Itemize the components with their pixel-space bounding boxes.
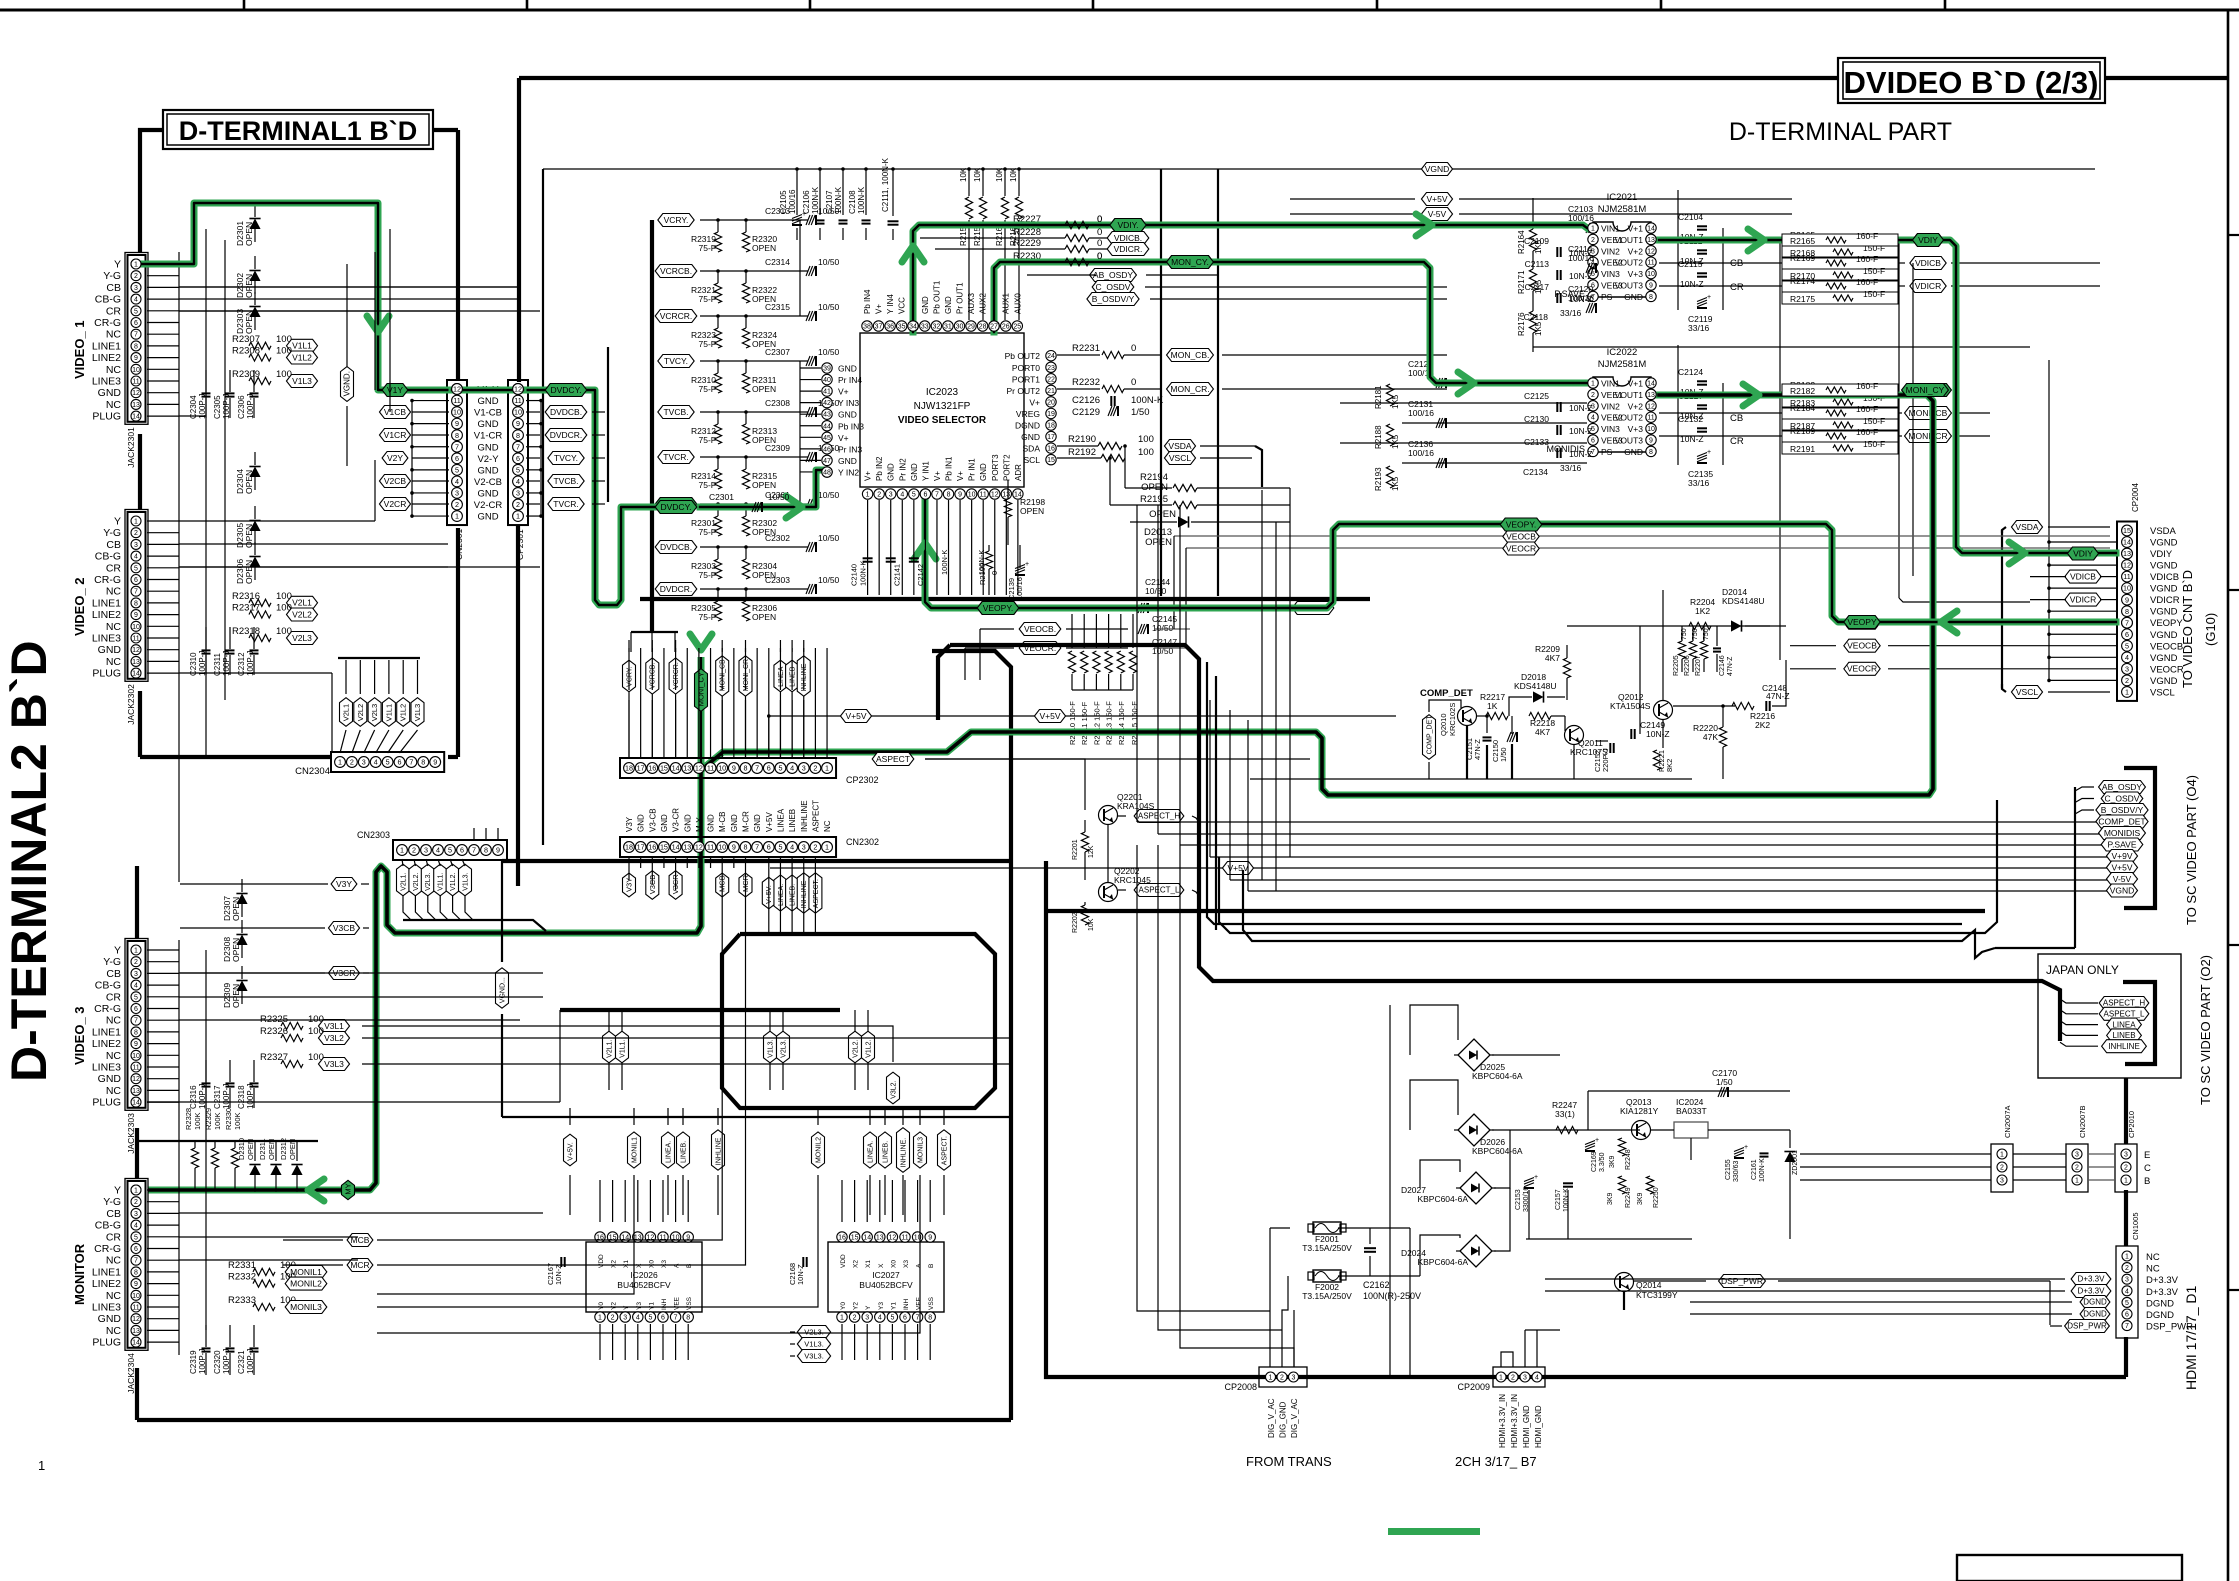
svg-text:DVDCB.: DVDCB. [550, 407, 582, 417]
net tag VDICB [1910, 257, 1946, 270]
svg-text:C2162: C2162 [1363, 1280, 1390, 1290]
svg-text:1: 1 [516, 512, 520, 521]
svg-text:5: 5 [912, 492, 916, 499]
svg-text:C2129: C2129 [1072, 407, 1100, 418]
pin 27 IC2023 [989, 321, 999, 331]
svg-text:CN2304: CN2304 [295, 766, 330, 777]
svg-text:3: 3 [1523, 1375, 1527, 1382]
net tag C_OSDV (O4) [2101, 792, 2143, 805]
resistor R2169 160-F [1782, 257, 1898, 269]
svg-text:10/50: 10/50 [818, 302, 840, 312]
svg-text:PS: PS [1601, 292, 1613, 302]
svg-text:4: 4 [516, 477, 520, 486]
svg-text:6: 6 [398, 758, 402, 767]
wire x=1046 column stubs [1011, 905, 1046, 907]
svg-text:2CH 3/17_ B7: 2CH 3/17_ B7 [1455, 1454, 1537, 1469]
svg-text:MONI_CR: MONI_CR [743, 659, 750, 691]
net tag COMP_DET (O4) [2096, 815, 2148, 828]
wire IC2021 outputs to banks [1659, 262, 1782, 264]
svg-text:47N-Z: 47N-Z [1473, 739, 1482, 760]
svg-text:10N-Z: 10N-Z [1646, 729, 1670, 739]
net tag VSDA [1164, 440, 1195, 453]
svg-text:C2318: C2318 [237, 1085, 246, 1109]
svg-text:1K5: 1K5 [1391, 394, 1400, 409]
resistor R2321 75-F [714, 283, 721, 303]
svg-text:LINEB: LINEB [788, 809, 797, 832]
svg-text:V3-CR: V3-CR [672, 808, 681, 832]
svg-text:C2310: C2310 [189, 652, 198, 676]
net tag VGND. vertical mid [496, 968, 509, 1008]
net tag VGND (O4) [2106, 884, 2137, 897]
svg-text:GND: GND [477, 488, 498, 499]
wire vertical x=652 heavy [650, 220, 654, 632]
svg-text:PORT1: PORT1 [1012, 374, 1040, 384]
svg-text:33/16: 33/16 [1688, 323, 1710, 333]
svg-text:Y-G: Y-G [103, 956, 121, 968]
net tag MONIL1 [628, 1132, 641, 1168]
pin 7 CP2004 restamp [2122, 617, 2133, 628]
svg-text:VDICR: VDICR [1915, 281, 1941, 291]
pin 1 VIDEO_1 restamp [131, 259, 141, 269]
wire column x=1137 [1136, 505, 1138, 822]
transistor Q2014 KTC3199Y [1615, 1273, 1634, 1292]
svg-text:13: 13 [683, 764, 691, 773]
svg-text:2: 2 [516, 500, 520, 509]
svg-text:8: 8 [134, 600, 138, 607]
svg-text:C2302: C2302 [765, 533, 790, 543]
svg-text:VGND: VGND [2150, 538, 2178, 549]
svg-text:3: 3 [1292, 1375, 1296, 1382]
svg-text:13: 13 [876, 1235, 884, 1242]
net tag V3Y [623, 873, 636, 897]
svg-text:CP2010: CP2010 [2127, 1111, 2136, 1138]
svg-text:12: 12 [695, 843, 703, 852]
svg-text:V1L1: V1L1 [384, 704, 393, 722]
pin 14 IC2026 [620, 1232, 630, 1242]
CP2301 stem [516, 526, 520, 886]
pin 4 IC2027 [875, 1312, 885, 1322]
svg-text:0: 0 [990, 571, 999, 575]
svg-text:VDICR: VDICR [2070, 594, 2096, 604]
net tag VSCL [2011, 686, 2042, 699]
svg-text:14: 14 [1647, 226, 1655, 233]
net tag VEOCB (upper) [1174, 535, 2110, 537]
svg-text:C2115: C2115 [1678, 259, 1703, 269]
resistor R2175 150-F [1782, 292, 1898, 304]
wire fan [376, 730, 389, 753]
svg-text:GND: GND [838, 410, 857, 420]
wire HDMI rows extend [1545, 1278, 1830, 1280]
svg-text:C2157: C2157 [1555, 1189, 1562, 1210]
svg-text:MONIL3: MONIL3 [917, 1137, 924, 1163]
wire O4 row P.SAVE [1180, 844, 2108, 846]
svg-text:47K: 47K [1703, 732, 1718, 742]
svg-text:C2134: C2134 [1523, 467, 1548, 477]
svg-text:11: 11 [1647, 260, 1654, 267]
svg-text:GND: GND [944, 296, 953, 314]
net tag VCRCB. [655, 265, 697, 278]
svg-text:10: 10 [514, 408, 522, 417]
wire tag stub [814, 856, 816, 872]
svg-text:2: 2 [134, 273, 138, 280]
resistor R2302 OPEN [742, 516, 749, 536]
pin 2 IC2022 [1588, 389, 1598, 399]
net tag AB_OSDY (O4) [2099, 781, 2146, 794]
svg-text:Y: Y [114, 1185, 121, 1197]
svg-text:GND: GND [1624, 447, 1643, 457]
svg-text:X3: X3 [903, 1260, 910, 1268]
svg-text:3: 3 [2125, 1277, 2129, 1284]
connector CN2007B [2066, 1144, 2088, 1192]
svg-text:13: 13 [132, 1088, 140, 1095]
svg-text:HDMI+3.3V_IN: HDMI+3.3V_IN [1510, 1394, 1519, 1448]
svg-text:10: 10 [132, 1053, 140, 1060]
svg-text:PORT3: PORT3 [991, 454, 1000, 481]
svg-text:OPEN: OPEN [231, 984, 241, 1008]
capacitor C2145 10/50 [1138, 603, 1142, 613]
pin 41 IC2023 [822, 386, 832, 396]
svg-text:7: 7 [674, 1315, 678, 1322]
pin 2 IC2026 [607, 1312, 617, 1322]
pin 33 IC2023 [920, 321, 930, 331]
net tag V3L1 [318, 1020, 349, 1033]
svg-text:37: 37 [875, 324, 883, 331]
resistor R2182 160-F [1782, 384, 1898, 396]
svg-text:Y3: Y3 [636, 1302, 643, 1310]
transistor Q2011 KRC107S [1565, 726, 1584, 745]
wire 1K5 column IC2021 [1532, 198, 1534, 229]
svg-text:12: 12 [991, 492, 999, 499]
svg-text:12: 12 [1647, 248, 1655, 255]
svg-text:LINEB.: LINEB. [882, 1141, 889, 1163]
net tag V+5V row a [840, 710, 871, 723]
diode D2307 (OPEN) [236, 894, 247, 905]
D-TERMINAL2 top edge [502, 859, 1011, 863]
svg-text:TVCR.: TVCR. [553, 499, 579, 509]
svg-text:VSCL: VSCL [2150, 687, 2175, 698]
resistors R2249/R2250 3K9 [1618, 1176, 1625, 1194]
svg-text:1: 1 [455, 512, 459, 521]
svg-text:R2248: R2248 [1625, 1149, 1632, 1170]
pin 1 IC2022 restamp [1588, 378, 1598, 388]
svg-text:11: 11 [901, 1235, 908, 1242]
loop A heavy [950, 645, 2060, 1041]
net tag P.SAVE (O4) [2101, 838, 2143, 851]
svg-text:1: 1 [1269, 1375, 1273, 1382]
svg-text:P.SAVE: P.SAVE [2108, 839, 2137, 849]
svg-text:LINEB: LINEB [789, 666, 796, 687]
net tag MONIDIS (O4) [2099, 827, 2146, 840]
wire TVC bus x=608 [607, 347, 609, 502]
svg-text:LINE2: LINE2 [92, 352, 121, 364]
svg-text:NC: NC [106, 1085, 122, 1097]
net tag LINEB. [677, 1132, 690, 1168]
svg-text:VGND: VGND [2150, 584, 2178, 595]
svg-text:3: 3 [2000, 1178, 2004, 1185]
svg-text:19: 19 [1047, 411, 1055, 418]
svg-text:13: 13 [132, 659, 140, 666]
diodes D2310-D2312 OPEN [249, 1165, 260, 1176]
svg-text:DVDCY.: DVDCY. [550, 385, 581, 395]
wire VIDEO_2 grid rows [179, 543, 519, 545]
resistor R2312 75-F [714, 424, 721, 444]
title box DVIDEO B'D (2/3) [1838, 58, 2105, 103]
transistor Q2013 KIA1281Y [1632, 1121, 1651, 1140]
svg-text:C2105: C2105 [779, 190, 788, 214]
resistor R2313 OPEN [742, 424, 749, 444]
net tag INHLINE. [897, 1128, 910, 1173]
svg-text:100N-K: 100N-K [811, 186, 820, 214]
net tag VDIY [1912, 234, 1943, 247]
svg-text:V1L1: V1L1 [292, 341, 312, 351]
wire cap column verticals [1677, 190, 1679, 310]
wire vertical bus x=206 lower [205, 950, 207, 1330]
capacitor C2317 100P-J [226, 1082, 235, 1084]
svg-text:C2117: C2117 [1525, 282, 1550, 292]
svg-text:OPEN: OPEN [231, 938, 241, 962]
svg-text:CB: CB [106, 282, 121, 294]
svg-text:38: 38 [863, 324, 871, 331]
capacitor C2142 100N-K [909, 557, 919, 559]
net tag ASPECT. [809, 873, 822, 913]
capacitor C2305 100P-J [226, 392, 235, 394]
svg-text:R2249: R2249 [1625, 1187, 1632, 1208]
svg-text:100/16: 100/16 [1408, 408, 1434, 418]
net tag V3CR [669, 871, 682, 900]
svg-text:R2184: R2184 [1790, 403, 1815, 413]
svg-text:150-F: 150-F [1863, 266, 1885, 276]
svg-text:R2229: R2229 [1013, 238, 1041, 249]
svg-text:GND: GND [979, 463, 988, 481]
resistor R2201 12K [1081, 832, 1088, 852]
capacitor C2132 10N-Z [1697, 427, 1707, 429]
svg-text:GND: GND [910, 463, 919, 481]
svg-text:ASPECT.: ASPECT. [941, 1136, 948, 1165]
resistor R2207 750 [1700, 641, 1707, 659]
net tag V3L3 [318, 1058, 349, 1071]
net tag MONI_CY restamp bank [1902, 384, 1949, 397]
svg-text:4K7: 4K7 [1545, 653, 1560, 663]
pin 42 IC2023 [822, 397, 832, 407]
svg-text:MON_CY.: MON_CY. [1171, 257, 1209, 267]
svg-text:V+: V+ [864, 471, 873, 481]
pin 44 IC2023 [822, 421, 832, 431]
wire vertical bus left x=179 lower [178, 940, 180, 1355]
svg-text:C2124: C2124 [1678, 367, 1703, 377]
connector JACK2304 (MONITOR) [125, 1179, 148, 1351]
wire tag elbows DVDCB-TVCR to bus [592, 411, 605, 413]
net tag V1L2. [446, 864, 459, 896]
svg-text:1: 1 [866, 492, 870, 499]
svg-text:+: + [1534, 1174, 1538, 1181]
pin 9 IC2027 [925, 1232, 935, 1242]
net tag VEOCB. [1019, 623, 1061, 636]
net tag MONIL2 [812, 1132, 825, 1168]
svg-text:150-F: 150-F [1863, 416, 1885, 426]
fan labels V2L1..V1L3 above CN2304 [340, 698, 353, 727]
svg-text:5: 5 [648, 1315, 652, 1322]
svg-text:8: 8 [484, 846, 488, 855]
svg-text:V+5V: V+5V [765, 812, 774, 832]
svg-text:28: 28 [979, 324, 987, 331]
svg-text:1: 1 [134, 1188, 138, 1195]
svg-text:ASPECT.: ASPECT. [813, 879, 820, 908]
svg-text:3: 3 [2075, 1152, 2079, 1159]
wire long row y=347 [1533, 346, 2030, 348]
svg-text:10/50: 10/50 [818, 257, 840, 267]
svg-text:75-F: 75-F [699, 570, 716, 580]
wire VGND tie [2049, 610, 2116, 612]
net tag V2L3. [421, 864, 434, 896]
svg-text:9: 9 [496, 846, 500, 855]
svg-text:CB: CB [106, 1208, 121, 1220]
svg-text:34: 34 [909, 324, 917, 331]
svg-text:9: 9 [516, 419, 520, 428]
capacitor C2105 100/16 [796, 169, 798, 215]
diode D2309 (OPEN) [236, 981, 247, 992]
svg-text:COMP_DET: COMP_DET [1420, 688, 1473, 699]
svg-text:R2195: R2195 [1140, 494, 1168, 505]
net tag VEOCR. [1019, 642, 1061, 655]
wire VGND tie [2049, 656, 2116, 658]
green path DVD Y input [140, 203, 449, 390]
wire long verticals power [1389, 1005, 1391, 1377]
svg-text:INHLINE: INHLINE [715, 1137, 722, 1165]
net tag V+9V (O4) [2106, 850, 2137, 863]
svg-text:2: 2 [1591, 237, 1595, 244]
svg-text:VDICR: VDICR [2150, 595, 2180, 606]
wire O4 row V-5V [1230, 879, 2108, 881]
svg-text:OPEN: OPEN [752, 384, 776, 394]
connector CP2004 [2117, 522, 2137, 701]
svg-text:33/16: 33/16 [1688, 478, 1710, 488]
wire CN2007 rows to regulator [1800, 1153, 1930, 1155]
svg-text:6: 6 [516, 454, 520, 463]
svg-text:CB-G: CB-G [95, 551, 121, 563]
svg-text:OPEN: OPEN [244, 222, 254, 246]
resistor R2311 OPEN [742, 373, 749, 393]
svg-text:V2L2.: V2L2. [413, 873, 420, 891]
svg-text:4: 4 [436, 846, 440, 855]
capacitor C2149 10N-Z [1630, 729, 1632, 739]
net tag V2CR [379, 498, 410, 511]
svg-text:2: 2 [1511, 1375, 1515, 1382]
svg-text:MONIL2: MONIL2 [815, 1137, 822, 1163]
net tag MONI_CR above CP2302 [739, 656, 752, 696]
svg-text:KTA1504S: KTA1504S [1610, 701, 1651, 711]
svg-text:Pb OUT1: Pb OUT1 [932, 280, 941, 314]
svg-text:KBPC604-6A: KBPC604-6A [1472, 1071, 1523, 1081]
net tag MCR [739, 873, 752, 897]
net tag V2CB [379, 475, 410, 488]
svg-text:1K: 1K [1487, 701, 1498, 711]
wire VDICB row to CP2004 [1951, 262, 2100, 264]
wire MONIL nets to IC area [377, 1215, 634, 1294]
svg-text:160-F: 160-F [1856, 254, 1878, 264]
svg-text:Y IN1: Y IN1 [921, 461, 930, 481]
svg-text:V2L3: V2L3 [370, 704, 379, 722]
heavy bus y=911 [1046, 909, 1985, 913]
wire plug row video3 [147, 1101, 560, 1103]
net tag MONI_CY [1905, 384, 1952, 397]
svg-text:T3.15A/250V: T3.15A/250V [1302, 1291, 1352, 1301]
svg-text:13: 13 [1647, 237, 1655, 244]
svg-text:0: 0 [1131, 343, 1136, 354]
resistor R2319 75-F [714, 232, 721, 252]
net tag VGND. [341, 367, 354, 402]
svg-text:PLUG: PLUG [92, 1097, 121, 1109]
svg-text:ASPECT: ASPECT [876, 754, 910, 764]
svg-text:44: 44 [823, 423, 831, 430]
resistor R2176 1K5 [1529, 311, 1536, 333]
connector CN1005 HDMI [2116, 1246, 2138, 1338]
pin 1 IC2022 [1588, 378, 1598, 388]
wire row [700, 411, 808, 413]
svg-text:M-Y: M-Y [695, 817, 704, 832]
svg-text:3: 3 [802, 843, 806, 852]
net tags V2L3./V1L3./V3L3. under IC2027 [797, 1326, 830, 1339]
svg-text:R2329: R2329 [204, 1108, 213, 1130]
svg-text:V-5V: V-5V [2113, 874, 2132, 884]
pin 6 IC2023 [920, 489, 930, 499]
svg-text:VEOCB: VEOCB [2150, 641, 2183, 652]
svg-text:3: 3 [516, 489, 520, 498]
connector CN2007A [1991, 1144, 2013, 1192]
net tag ASPECT_L (JAPAN) [2099, 1007, 2149, 1020]
capacitor C2304 100P-J [202, 392, 211, 394]
svg-text:8K2: 8K2 [1665, 759, 1674, 772]
wire jack2 pin [147, 660, 179, 662]
svg-text:X0: X0 [648, 1260, 655, 1268]
capacitor C2161 100N-K [1760, 1152, 1769, 1154]
resistor R2220 47K [1719, 727, 1726, 747]
svg-text:CR: CR [1730, 436, 1744, 447]
net tag VCRCR. [655, 310, 697, 323]
pin 3 IC2026 [620, 1312, 630, 1322]
net tag DGND second [2080, 1308, 2110, 1321]
pin 14 IC2023 [1013, 489, 1023, 499]
svg-text:9: 9 [1649, 438, 1653, 445]
svg-text:10: 10 [132, 367, 140, 374]
svg-text:V1L3.: V1L3. [767, 1040, 774, 1058]
resistor R2213 150-F [1108, 614, 1110, 648]
net tag LINEA. [864, 1132, 877, 1168]
svg-text:R2318: R2318 [232, 626, 260, 637]
svg-text:V+1: V+1 [1628, 224, 1644, 234]
net tag DVDCR. [545, 429, 587, 442]
svg-text:SCL: SCL [1023, 455, 1040, 465]
svg-text:VCRY.: VCRY. [664, 215, 689, 225]
pin 5 IC2023 [909, 489, 919, 499]
resistor R2218 4K7 [1529, 712, 1551, 719]
svg-text:1: 1 [1591, 226, 1595, 233]
svg-text:D-TERMINAL2 B`D: D-TERMINAL2 B`D [1, 640, 57, 1082]
wire tag stub [768, 856, 770, 872]
svg-text:CP2301: CP2301 [515, 529, 525, 560]
pin 13 IC2022 [1646, 389, 1656, 399]
svg-text:VDICB: VDICB [2150, 572, 2179, 583]
svg-text:NC: NC [2146, 1264, 2160, 1275]
svg-text:10K: 10K [995, 167, 1004, 182]
capacitor C2150 1/50 [1511, 716, 1513, 734]
net tag VCRY. [658, 214, 694, 227]
resistor R2170 150-F [1782, 269, 1898, 281]
capacitor C2319 100P-J [202, 1347, 211, 1349]
svg-text:6: 6 [460, 846, 464, 855]
svg-text:GND: GND [477, 465, 498, 476]
svg-text:VGND: VGND [2150, 607, 2178, 618]
svg-text:8: 8 [455, 431, 459, 440]
